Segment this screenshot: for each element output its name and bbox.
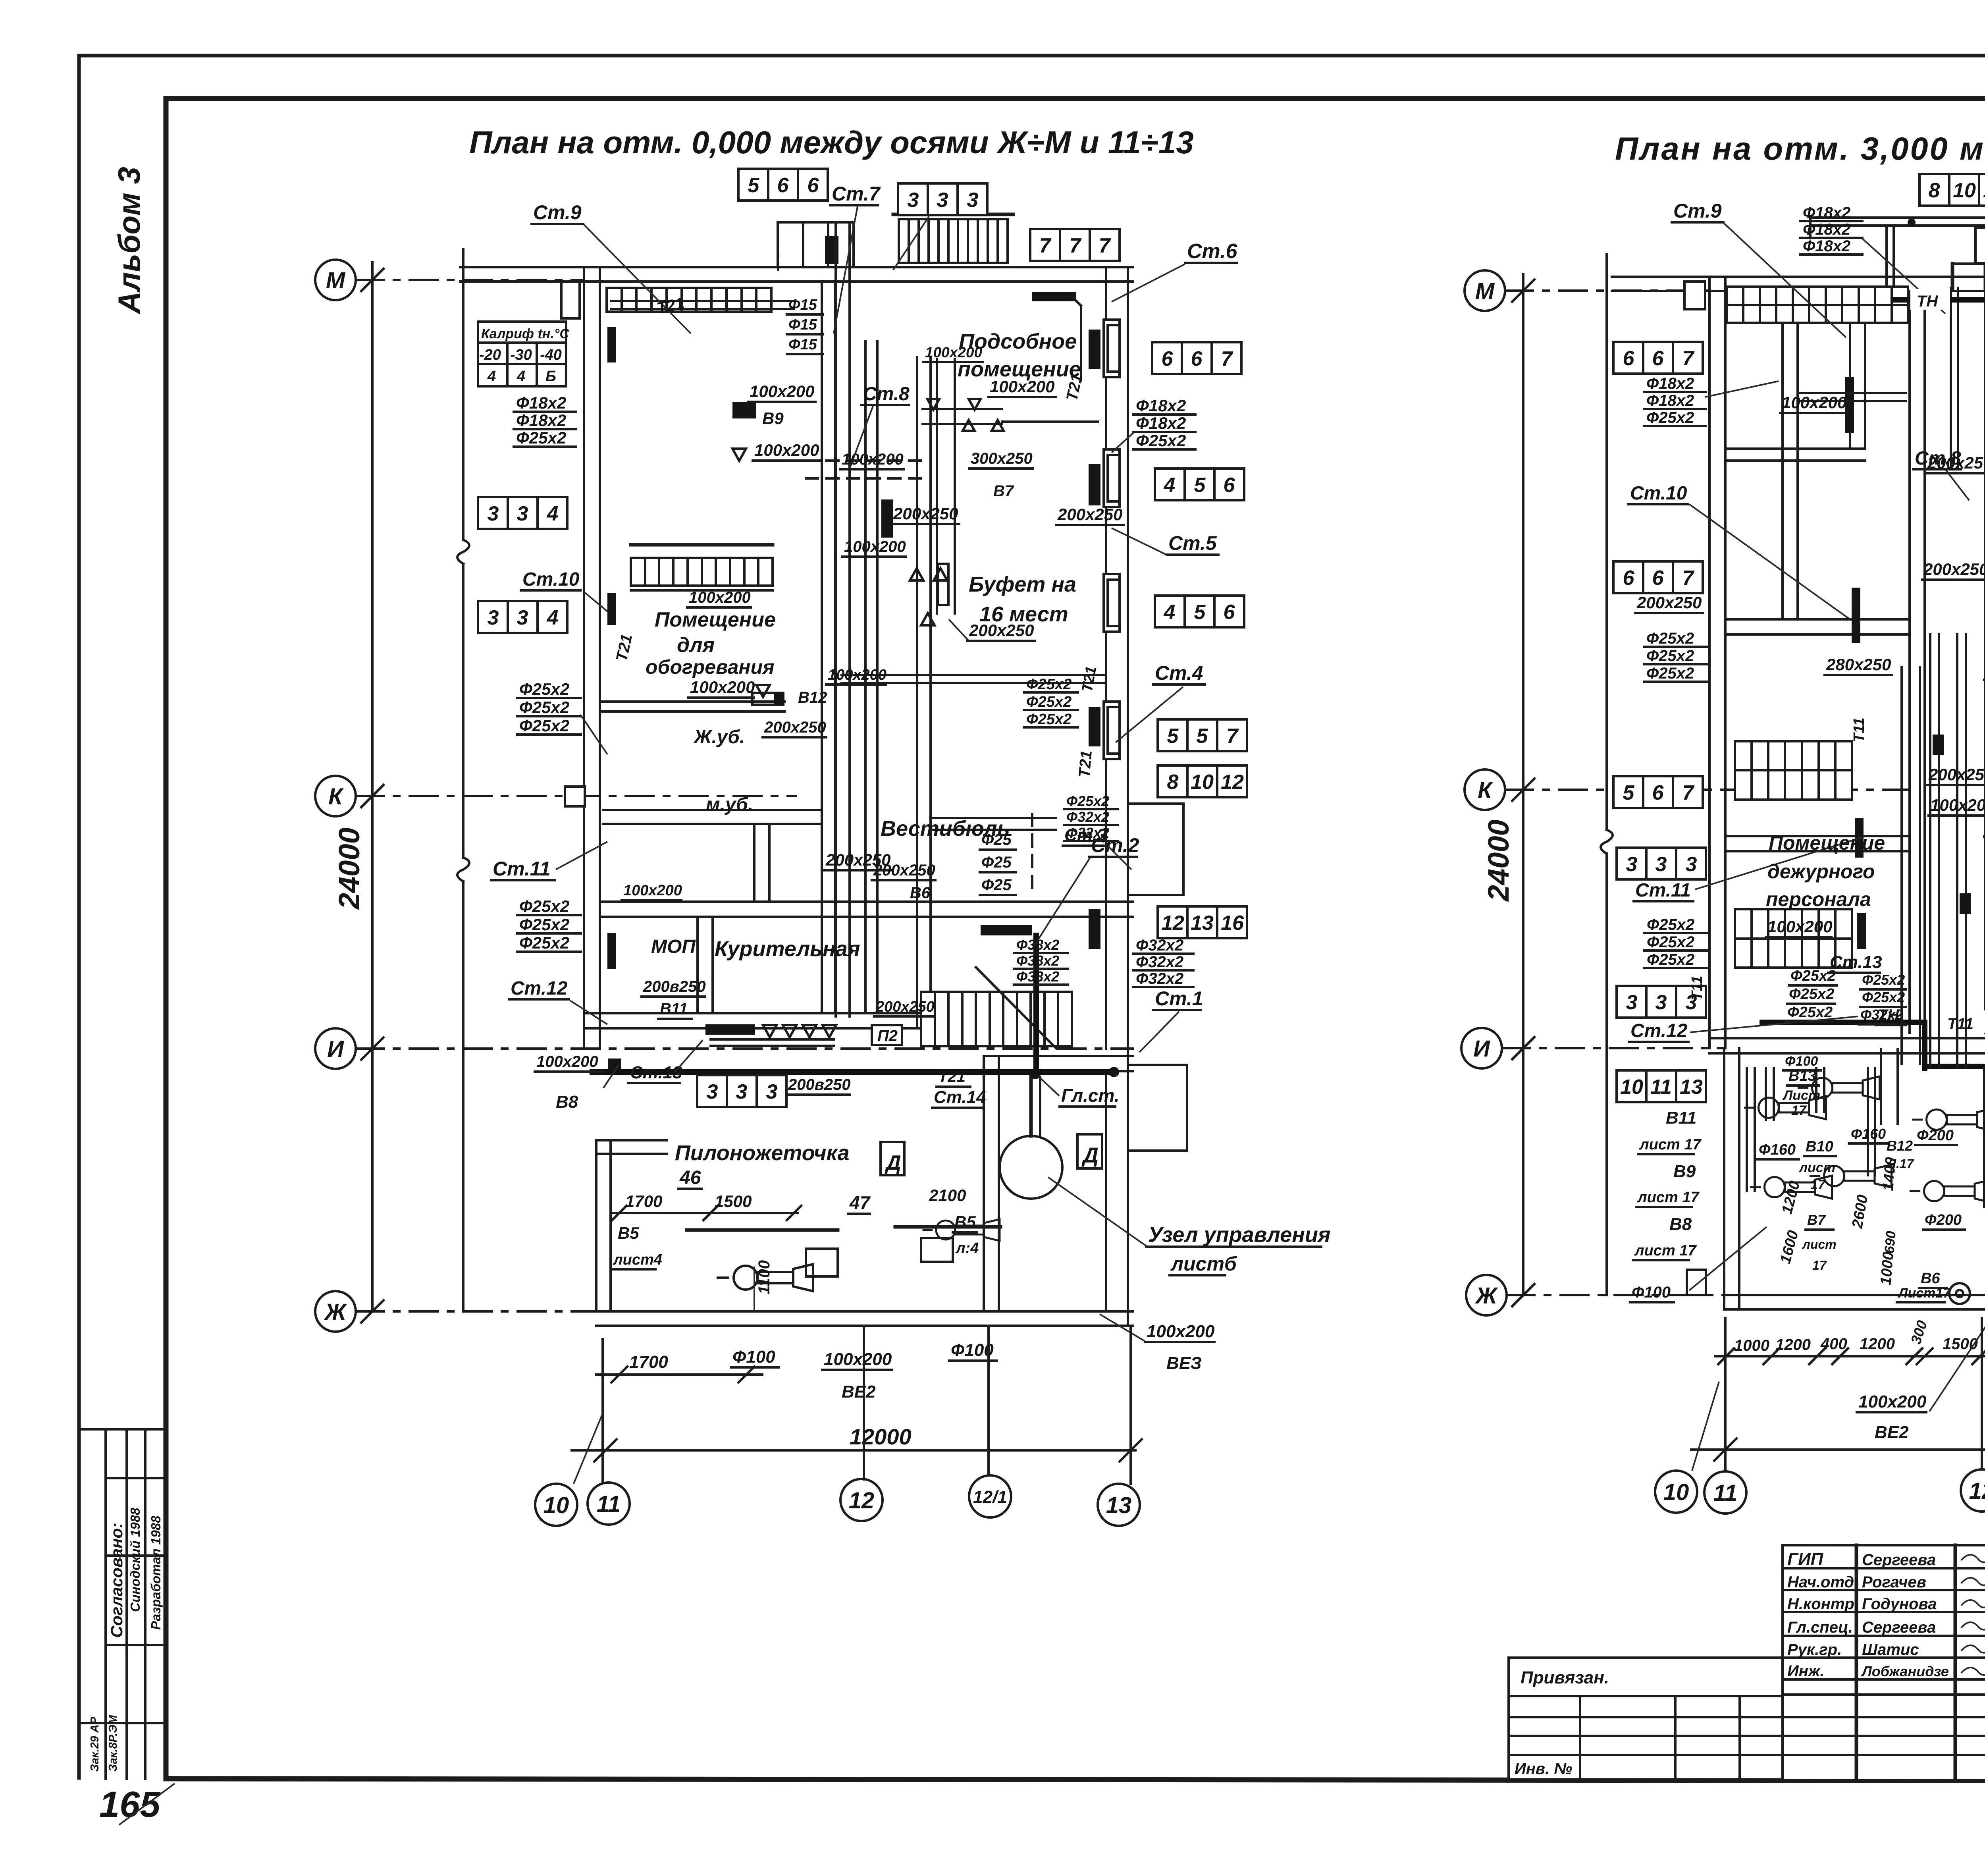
svg-text:100х200: 100х200 <box>842 451 904 468</box>
fan unit <box>1745 1096 1826 1119</box>
svg-text:Ф25х2: Ф25х2 <box>1787 1004 1833 1021</box>
svg-text:200х250: 200х250 <box>1928 765 1985 784</box>
svg-text:Ф38х2: Ф38х2 <box>1016 952 1059 969</box>
svg-text:Привязан.: Привязан. <box>1521 1668 1609 1687</box>
svg-text:К: К <box>1478 777 1493 803</box>
svg-text:Д: Д <box>885 1151 901 1174</box>
svg-text:3: 3 <box>967 189 979 212</box>
svg-text:листб: листб <box>1170 1253 1237 1275</box>
window band top-left <box>607 288 771 312</box>
svg-text:Б: Б <box>545 368 556 385</box>
partition Буфет bottom <box>930 817 1056 819</box>
svg-text:М: М <box>326 268 346 293</box>
svg-text:В8: В8 <box>556 1092 578 1112</box>
svg-text:Ст.12: Ст.12 <box>511 978 568 999</box>
svg-text:Ф18х2: Ф18х2 <box>1136 414 1186 432</box>
witness lines to bubbles <box>601 1339 604 1482</box>
svg-text:Ф25: Ф25 <box>981 854 1012 871</box>
svg-text:Ф25: Ф25 <box>981 831 1012 848</box>
svg-text:Ф25: Ф25 <box>981 876 1012 894</box>
svg-text:100х200: 100х200 <box>750 382 815 401</box>
svg-text:3: 3 <box>488 502 499 525</box>
svg-text:Ф18х2: Ф18х2 <box>1646 375 1694 392</box>
partition rooms left column <box>600 700 784 703</box>
window sill <box>1104 574 1120 632</box>
svg-text:Ст.8: Ст.8 <box>1915 448 1961 469</box>
svg-text:200х250: 200х250 <box>893 504 958 523</box>
svg-text:Ф100: Ф100 <box>1632 1284 1671 1301</box>
svg-text:5: 5 <box>1194 601 1206 624</box>
svg-text:лист: лист <box>1802 1237 1837 1251</box>
svg-text:Ф200: Ф200 <box>1925 1212 1962 1228</box>
stack boxes 3 3 3 <box>697 1075 786 1107</box>
svg-text:Ф25х2: Ф25х2 <box>1862 989 1905 1005</box>
radiator <box>1855 818 1864 858</box>
sheet outer border <box>79 54 1985 58</box>
window sill <box>1104 320 1120 377</box>
window sill <box>1104 449 1120 507</box>
svg-text:В11: В11 <box>660 1000 688 1018</box>
svg-text:Ф18х2: Ф18х2 <box>516 393 566 412</box>
axis circle М <box>1465 270 1505 311</box>
stack boxes 8 10 11 <box>1919 174 1985 206</box>
stack boxes 3 3 3 <box>1617 986 1706 1018</box>
axis circle 10 <box>535 1484 577 1526</box>
dashed duct in corridor <box>806 459 925 462</box>
svg-text:Ст.13: Ст.13 <box>1830 952 1882 972</box>
svg-text:5: 5 <box>748 174 760 197</box>
svg-text:Ф25х2: Ф25х2 <box>1646 409 1694 426</box>
svg-text:Рук.гр.: Рук.гр. <box>1787 1641 1842 1658</box>
svg-text:Ф25х2: Ф25х2 <box>1646 630 1694 647</box>
svg-text:Нач.отд.: Нач.отд. <box>1787 1573 1858 1591</box>
svg-text:4: 4 <box>516 368 525 385</box>
stack boxes 3 3 4 <box>478 497 567 529</box>
svg-text:13: 13 <box>1106 1492 1132 1518</box>
stack boxes 4 5 6 <box>1155 469 1244 500</box>
svg-text:13: 13 <box>1680 1076 1703 1099</box>
axis circle 12 <box>1961 1469 1985 1512</box>
svg-text:лист: лист <box>1798 1160 1835 1175</box>
fan unit <box>1799 1076 1880 1099</box>
radiator <box>1852 588 1860 643</box>
annex right plan <box>1723 1048 1725 1309</box>
duct riser from roof <box>1885 226 1888 297</box>
svg-text:Ст.6: Ст.6 <box>1187 240 1238 263</box>
stack boxes 8 10 12 <box>1158 765 1247 797</box>
svg-text:Шатис: Шатис <box>1862 1641 1919 1658</box>
witness vertical <box>1605 254 1608 830</box>
porch bump Ст.2 <box>1128 804 1183 895</box>
axis circle 10 <box>1655 1471 1697 1513</box>
stack l2 <box>1644 630 1708 682</box>
svg-text:200х250: 200х250 <box>875 999 935 1015</box>
corner stub <box>1684 281 1705 309</box>
svg-text:Ст.9: Ст.9 <box>1673 200 1722 222</box>
svg-text:В10: В10 <box>1806 1138 1833 1155</box>
svg-text:6: 6 <box>1652 781 1664 804</box>
svg-text:3: 3 <box>766 1080 778 1103</box>
svg-text:В9: В9 <box>1673 1162 1696 1181</box>
svg-text:6: 6 <box>807 174 819 197</box>
central vertical duct <box>834 222 837 1016</box>
pipe stack <box>517 680 581 735</box>
stair hatch top right plan <box>1975 228 1985 263</box>
svg-text:Ф32х2: Ф32х2 <box>1066 825 1109 841</box>
vertical dimension line 24000 <box>371 262 374 1311</box>
pipe stack right <box>1133 396 1195 450</box>
svg-text:Ф100: Ф100 <box>732 1347 775 1367</box>
partition Подсобное/Буфет <box>923 408 1002 410</box>
svg-text:Ф18х2: Ф18х2 <box>516 411 566 430</box>
axis lines <box>1505 289 1709 292</box>
svg-text:3: 3 <box>736 1080 748 1103</box>
svg-text:Ф160: Ф160 <box>1851 1126 1886 1142</box>
svg-text:7: 7 <box>1070 234 1082 257</box>
svg-text:В5: В5 <box>618 1224 639 1242</box>
witness line with breaks <box>462 249 464 540</box>
stack l3 <box>1644 916 1708 968</box>
svg-text:10: 10 <box>1191 771 1214 794</box>
И bottom wall <box>1709 1052 1985 1055</box>
axis circle Ж <box>315 1291 356 1332</box>
stack boxes 3 3 3 <box>898 183 987 215</box>
svg-text:Ф38х2: Ф38х2 <box>1016 968 1059 985</box>
svg-text:100х200: 100х200 <box>754 441 819 459</box>
svg-text:Ст.14: Ст.14 <box>934 1087 986 1107</box>
svg-text:Зак.29 АР: Зак.29 АР <box>89 1716 101 1772</box>
svg-text:12000: 12000 <box>850 1424 912 1449</box>
svg-text:Альбом 3: Альбом 3 <box>112 167 146 314</box>
svg-text:Помещение: Помещение <box>1769 832 1885 854</box>
radiator <box>607 933 616 969</box>
radiator <box>1089 464 1100 505</box>
svg-text:Ст.10: Ст.10 <box>522 569 580 590</box>
bottom wall at axis И <box>584 1027 984 1030</box>
svg-text:100х200: 100х200 <box>925 344 982 361</box>
svg-text:Ф32х2: Ф32х2 <box>1136 953 1183 971</box>
stack boxes 3 3 3 <box>1617 848 1706 879</box>
svg-text:Ф25х2: Ф25х2 <box>1136 431 1186 450</box>
svg-text:В11: В11 <box>1666 1108 1696 1128</box>
svg-text:И: И <box>327 1036 344 1062</box>
svg-text:Ф25х2: Ф25х2 <box>519 915 569 934</box>
svg-text:Инв. №: Инв. № <box>1515 1760 1572 1778</box>
svg-text:К: К <box>328 784 344 810</box>
svg-text:М: М <box>1475 278 1495 304</box>
radiator <box>1089 707 1100 746</box>
corridor walls <box>821 281 823 1013</box>
svg-text:10: 10 <box>1620 1076 1643 1099</box>
svg-text:5: 5 <box>1197 725 1208 748</box>
svg-text:лист 17: лист 17 <box>1637 1189 1700 1206</box>
svg-text:100х200: 100х200 <box>828 667 887 683</box>
svg-text:24000: 24000 <box>333 827 366 910</box>
svg-text:Помещение: Помещение <box>655 608 776 631</box>
Калориф table <box>478 322 566 386</box>
svg-text:5: 5 <box>1194 474 1206 497</box>
axis circle К <box>1465 769 1505 810</box>
svg-text:300х250: 300х250 <box>971 450 1033 467</box>
svg-text:Ф15: Ф15 <box>788 297 817 313</box>
svg-text:1000: 1000 <box>1877 1251 1897 1286</box>
svg-text:12/1: 12/1 <box>973 1487 1007 1507</box>
svg-text:3: 3 <box>517 502 528 525</box>
svg-text:ВЕ2: ВЕ2 <box>842 1382 876 1402</box>
corner box top-left <box>561 282 580 318</box>
svg-text:Ст.11: Ст.11 <box>493 858 551 880</box>
stack boxes 6 6 7 <box>1152 342 1241 374</box>
svg-text:Т11: Т11 <box>1947 1015 1973 1033</box>
svg-text:100х200: 100х200 <box>844 538 906 555</box>
svg-text:280х250: 280х250 <box>1826 655 1891 674</box>
svg-text:4: 4 <box>547 502 559 525</box>
svg-text:В7: В7 <box>1807 1212 1826 1228</box>
stack boxes 6 6 7 <box>1613 561 1703 593</box>
svg-text:МОП: МОП <box>651 936 696 957</box>
svg-text:17: 17 <box>1812 1258 1827 1273</box>
svg-text:Лист: Лист <box>1782 1088 1820 1103</box>
svg-text:В6: В6 <box>1921 1270 1940 1287</box>
svg-text:Ф18х2: Ф18х2 <box>1803 237 1850 255</box>
stack boxes 5 5 7 <box>1158 719 1247 751</box>
svg-text:Курительная: Курительная <box>715 937 860 961</box>
svg-text:Ф15: Ф15 <box>788 316 817 333</box>
svg-text:ГИП: ГИП <box>1787 1550 1824 1569</box>
svg-text:16: 16 <box>1221 912 1244 935</box>
svg-text:Ф200: Ф200 <box>1917 1127 1954 1144</box>
roof duct run <box>1810 216 1985 219</box>
names table <box>1855 1545 1858 1780</box>
bold T21 main near И <box>592 1069 1112 1075</box>
window band right plan <box>1727 287 1908 323</box>
svg-text:12: 12 <box>1969 1478 1985 1504</box>
svg-text:1200: 1200 <box>1860 1335 1895 1353</box>
svg-text:В8: В8 <box>1669 1215 1692 1234</box>
svg-text:100х200: 100х200 <box>1767 917 1833 936</box>
svg-text:Ф25х2: Ф25х2 <box>1647 951 1694 968</box>
flag Д boxes <box>1077 1134 1102 1168</box>
svg-text:Ф32х2: Ф32х2 <box>1136 937 1183 954</box>
svg-text:100х200: 100х200 <box>536 1053 598 1070</box>
svg-text:4: 4 <box>487 368 496 385</box>
svg-text:Т11: Т11 <box>1689 976 1706 1001</box>
svg-text:Ст.11: Ст.11 <box>1635 880 1691 901</box>
radiator <box>1089 909 1100 949</box>
svg-text:4: 4 <box>1164 474 1176 497</box>
svg-text:Ф25х2: Ф25х2 <box>1862 972 1905 988</box>
svg-text:12: 12 <box>849 1488 875 1514</box>
radiator <box>1032 292 1076 301</box>
pipe stack right low <box>1133 937 1193 987</box>
svg-text:ВЕ2: ВЕ2 <box>1875 1423 1909 1442</box>
svg-text:3: 3 <box>1626 991 1638 1014</box>
svg-text:Ф18х2: Ф18х2 <box>1803 204 1850 222</box>
wall notch top <box>1952 264 1985 274</box>
svg-text:Ф25х2: Ф25х2 <box>1647 916 1694 933</box>
svg-text:Ф32х2: Ф32х2 <box>1136 970 1183 987</box>
svg-text:Ст.10: Ст.10 <box>1630 483 1687 504</box>
svg-text:8: 8 <box>1167 771 1179 794</box>
svg-text:Калриф tн.°С: Калриф tн.°С <box>481 326 569 341</box>
stack boxes 5 6 6 <box>738 169 828 201</box>
radiator <box>1857 913 1866 949</box>
svg-text:Лист17: Лист17 <box>1897 1286 1951 1301</box>
svg-text:7: 7 <box>1682 347 1695 370</box>
svg-text:Ф18х2: Ф18х2 <box>1646 392 1694 409</box>
svg-text:6: 6 <box>1162 347 1174 370</box>
svg-text:Ф25х2: Ф25х2 <box>519 680 569 698</box>
svg-text:1100: 1100 <box>755 1260 773 1294</box>
svg-text:3: 3 <box>488 606 499 629</box>
svg-text:персонала: персонала <box>1766 888 1871 910</box>
svg-text:1500: 1500 <box>1943 1335 1978 1353</box>
svg-text:лист4: лист4 <box>613 1251 662 1268</box>
svg-text:Н.контр.: Н.контр. <box>1787 1595 1859 1613</box>
svg-text:Рогачев: Рогачев <box>1862 1573 1926 1591</box>
svg-text:100х200: 100х200 <box>1930 796 1985 814</box>
svg-text:Ф38х2: Ф38х2 <box>1016 937 1059 953</box>
svg-text:лист 17: лист 17 <box>1634 1242 1697 1259</box>
svg-text:Ж.уб.: Ж.уб. <box>693 727 745 748</box>
svg-text:100х200: 100х200 <box>690 678 755 696</box>
svg-text:11: 11 <box>1650 1076 1672 1099</box>
svg-text:-30: -30 <box>510 347 532 363</box>
vertical dim 24000 <box>1522 274 1524 1295</box>
svg-text:дежурного: дежурного <box>1767 860 1875 883</box>
svg-text:4: 4 <box>547 606 559 629</box>
porch bump right <box>1128 1065 1187 1151</box>
svg-text:10: 10 <box>1663 1479 1689 1505</box>
svg-text:11: 11 <box>1983 179 1985 202</box>
svg-text:-40: -40 <box>540 347 562 363</box>
svg-text:Ф32х2: Ф32х2 <box>1860 1006 1903 1023</box>
svg-text:100х200: 100х200 <box>990 377 1055 396</box>
svg-text:100х200: 100х200 <box>824 1350 892 1369</box>
axis circle И <box>1461 1028 1502 1068</box>
svg-text:100х200: 100х200 <box>1782 393 1847 412</box>
svg-text:Ф25х2: Ф25х2 <box>1647 933 1694 951</box>
window band mid-left <box>631 558 773 586</box>
stack boxes 5 6 7 <box>1613 776 1703 808</box>
svg-text:Ф25х2: Ф25х2 <box>1026 676 1072 693</box>
svg-text:3: 3 <box>1655 853 1667 876</box>
fan unit <box>923 1219 1000 1241</box>
svg-text:-20: -20 <box>479 347 501 363</box>
axis circle 11 <box>1704 1471 1746 1514</box>
stack boxes 10 11 13 <box>1617 1070 1706 1102</box>
svg-text:165: 165 <box>99 1784 161 1825</box>
svg-text:3: 3 <box>517 606 528 629</box>
svg-text:Ф100: Ф100 <box>1785 1054 1818 1069</box>
axis lines <box>356 279 584 281</box>
svg-text:7: 7 <box>1682 781 1695 804</box>
axis circle 12 <box>840 1479 883 1521</box>
svg-text:Л.17: Л.17 <box>1887 1157 1915 1171</box>
svg-text:Ф25х2: Ф25х2 <box>519 933 569 952</box>
svg-text:6: 6 <box>1652 347 1664 370</box>
svg-text:200х250: 200х250 <box>1636 593 1702 612</box>
svg-text:3: 3 <box>908 189 919 212</box>
big duct Ф355 annex <box>1983 1068 1985 1207</box>
black duct nodes <box>825 236 838 264</box>
svg-text:Ф25х2: Ф25х2 <box>519 698 569 717</box>
duct to right rooms <box>842 674 1106 676</box>
stack vest <box>1064 793 1118 841</box>
svg-text:Сергеева: Сергеева <box>1862 1551 1936 1569</box>
svg-text:690: 690 <box>1882 1230 1899 1254</box>
svg-text:3: 3 <box>1686 853 1697 876</box>
stack boxes 12 13 16 <box>1158 906 1247 938</box>
grid band 1 <box>1735 741 1852 800</box>
svg-text:В7: В7 <box>993 482 1014 500</box>
radiator <box>1089 330 1100 369</box>
svg-text:Ст.8: Ст.8 <box>863 384 910 405</box>
svg-text:Ф32х2: Ф32х2 <box>1066 809 1109 825</box>
svg-text:Зак.8Р.ЭМ: Зак.8Р.ЭМ <box>107 1715 119 1772</box>
svg-text:Ст.5: Ст.5 <box>1168 532 1217 554</box>
radiator <box>1845 377 1854 433</box>
grid band 2 <box>1735 909 1852 968</box>
radiator <box>607 593 616 625</box>
svg-text:Ф25х2: Ф25х2 <box>519 897 569 916</box>
svg-text:24000: 24000 <box>1482 819 1515 902</box>
svg-text:200х250: 200х250 <box>1923 560 1985 578</box>
fan unit <box>1811 1165 1892 1188</box>
svg-text:Лобжанидзе: Лобжанидзе <box>1861 1663 1949 1679</box>
axis circle И <box>315 1028 356 1069</box>
small left table of title block <box>1509 1658 1783 1780</box>
svg-text:10: 10 <box>1953 179 1976 202</box>
svg-text:В5: В5 <box>954 1213 976 1231</box>
axis circle М <box>315 260 356 300</box>
svg-text:3: 3 <box>937 189 948 212</box>
stairs hatch <box>921 992 1072 1046</box>
svg-text:Синодский 1988: Синодский 1988 <box>128 1508 143 1612</box>
svg-text:17: 17 <box>1791 1103 1807 1118</box>
svg-text:1500: 1500 <box>715 1192 752 1211</box>
svg-text:Гл.ст.: Гл.ст. <box>1061 1085 1120 1106</box>
svg-text:4: 4 <box>1164 601 1176 624</box>
svg-text:Ж: Ж <box>324 1299 347 1325</box>
stack bufet <box>1024 676 1078 728</box>
axis circle 12/1 <box>969 1475 1011 1517</box>
stack boxes 6 6 7 <box>1613 342 1703 374</box>
svg-text:В12: В12 <box>798 689 827 706</box>
chimney block top <box>778 222 854 267</box>
sheet inner frame <box>164 98 169 1779</box>
svg-text:100х200: 100х200 <box>1858 1392 1927 1411</box>
svg-text:м.уб.: м.уб. <box>706 794 753 815</box>
svg-text:В12: В12 <box>1887 1138 1913 1154</box>
stack l1 <box>1644 375 1706 426</box>
svg-text:7: 7 <box>1099 234 1111 257</box>
svg-text:7: 7 <box>1039 234 1052 257</box>
svg-text:7: 7 <box>1227 725 1239 748</box>
pipe stack <box>517 897 581 952</box>
svg-text:2100: 2100 <box>929 1186 966 1205</box>
svg-text:Ж: Ж <box>1474 1283 1498 1309</box>
svg-text:100х200: 100х200 <box>689 589 751 606</box>
svg-text:обогревания: обогревания <box>646 656 775 678</box>
Uzel circle <box>1000 1136 1062 1199</box>
svg-text:Т11: Т11 <box>1851 717 1867 742</box>
bottom small dims <box>596 1373 762 1376</box>
svg-text:100х200: 100х200 <box>623 882 682 899</box>
svg-text:ВЕЗ: ВЕЗ <box>1166 1353 1202 1373</box>
fan unit <box>1911 1180 1985 1203</box>
pipe stack <box>514 393 576 447</box>
